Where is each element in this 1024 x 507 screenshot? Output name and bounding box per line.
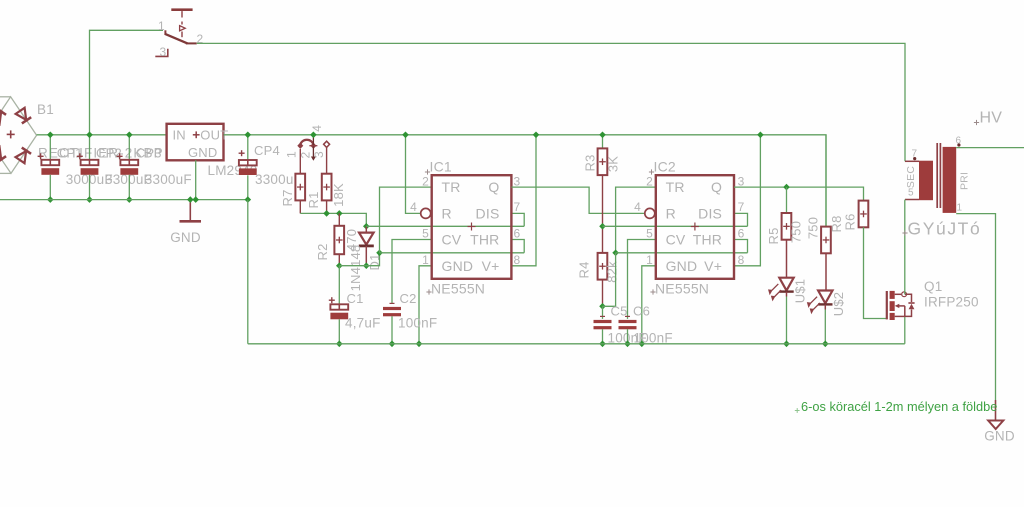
capacitor C1 — [330, 304, 348, 309]
svg-text:R3: R3 — [583, 154, 598, 171]
junction IC1 reset riser — [402, 132, 409, 139]
svg-text:DIS: DIS — [698, 206, 722, 222]
svg-text:TR: TR — [666, 179, 685, 195]
junction R2 top — [336, 210, 343, 217]
wire IC1 THR U-stub — [511, 240, 524, 253]
wire CP1 bottom lead — [49, 175, 51, 200]
wire R4 bottom lead — [602, 280, 604, 307]
wire R5 to LED US1 — [786, 240, 788, 278]
svg-text:5: 5 — [422, 227, 429, 241]
svg-text:3: 3 — [160, 45, 167, 59]
svg-text:PRI: PRI — [959, 172, 971, 190]
svg-text:CP2: CP2 — [96, 146, 122, 161]
svg-text:R5: R5 — [766, 227, 781, 244]
wire CP2 bottom lead — [89, 175, 91, 200]
wire regulator GND pin — [195, 160, 197, 199]
switch S1 — [171, 8, 192, 11]
svg-text:CP3: CP3 — [136, 146, 162, 161]
svg-text:1: 1 — [646, 253, 653, 267]
svg-text:C6: C6 — [633, 304, 650, 319]
junction CP4 top — [245, 132, 252, 139]
earth ground symbol GND (right) — [995, 400, 997, 421]
bridge rectifier B1 — [0, 97, 37, 174]
svg-text:750: 750 — [806, 217, 821, 239]
svg-text:R: R — [666, 206, 676, 222]
wire R7 bottom lead — [299, 200, 301, 213]
LED US2 — [818, 291, 832, 304]
wire R3 bottom lead — [602, 175, 604, 253]
wire IC1 CV to C2 — [392, 240, 432, 304]
wire R4-C5 to TR2 jog — [603, 253, 616, 306]
svg-text:750: 750 — [789, 221, 804, 243]
wire CP2 top lead — [89, 135, 91, 160]
wire CP4 bottom lead — [247, 175, 249, 199]
wire R1 top lead — [326, 147, 328, 173]
svg-text:18K: 18K — [331, 183, 346, 207]
svg-text:Q1: Q1 — [924, 279, 942, 294]
junction CP1 bottom — [47, 196, 54, 203]
wire R1 bottom lead — [326, 200, 328, 213]
wire R5 top lead — [786, 187, 788, 213]
resistor R7 — [295, 174, 305, 201]
junction node B (TR1/THR1) — [376, 250, 383, 257]
resistor R5 — [782, 213, 792, 240]
LED US1 — [779, 278, 793, 291]
capacitor CP3 — [120, 160, 138, 165]
svg-text:R2: R2 — [315, 243, 330, 260]
junction ground stub — [187, 196, 194, 203]
wire IC2 TR net — [616, 187, 656, 253]
wire IC2 V+ riser — [734, 135, 760, 266]
svg-text:IRFP250: IRFP250 — [924, 295, 979, 310]
junction R2 bottom — [336, 262, 343, 269]
junction R4 bottom / C5 top — [599, 303, 606, 310]
svg-text:NE555N: NE555N — [655, 281, 709, 297]
svg-text:HV: HV — [980, 110, 1003, 127]
svg-text:7: 7 — [912, 149, 918, 160]
voltage regulator U (LM2940) — [167, 124, 224, 161]
wire IC2 through DIS — [603, 225, 748, 227]
svg-text:GND: GND — [188, 145, 218, 160]
svg-text:GND: GND — [984, 429, 1015, 444]
junction IC1 GND on rail — [416, 341, 423, 348]
capacitor CP2 — [81, 160, 99, 165]
wire R7 top lead — [299, 149, 301, 174]
svg-text:CV: CV — [666, 232, 686, 248]
junction node A (D1 anode / DIS1) — [363, 223, 370, 230]
svg-text:CP1: CP1 — [57, 146, 83, 161]
op-amp U2 IC2 NE555N box — [656, 175, 734, 279]
wire GND bottom rail — [248, 343, 905, 345]
wire R2 top lead — [338, 213, 340, 225]
junction D1 cathode — [363, 262, 370, 269]
wire R6 to Q1 gate — [864, 227, 887, 318]
svg-text:4,7uF: 4,7uF — [345, 316, 381, 331]
wire node R7/R1/R2 — [300, 213, 366, 226]
wire SEC pin5 stub — [905, 199, 919, 201]
svg-text:1: 1 — [957, 203, 963, 214]
resistor R6 — [859, 201, 869, 228]
junction CP1 top — [47, 132, 54, 139]
resistor R4 — [598, 253, 608, 280]
junction IC2 GND on rail — [639, 341, 646, 348]
svg-text:6-os köracél 1-2m mélyen a föl: 6-os köracél 1-2m mélyen a földbe — [801, 399, 997, 414]
svg-text:THR: THR — [470, 232, 499, 248]
svg-text:C1: C1 — [347, 291, 364, 306]
capacitor C2 — [383, 307, 401, 310]
wire IC1 V+ riser — [511, 135, 536, 266]
junction R3 bottom (DIS2 node) — [599, 223, 606, 230]
wire Q1 drain to SEC — [904, 200, 906, 294]
svg-text:U$1: U$1 — [793, 279, 808, 303]
svg-text:GYúJTó: GYúJTó — [908, 219, 982, 239]
svg-text:R7: R7 — [280, 189, 295, 206]
wire SEC pin7 stub — [905, 160, 919, 162]
svg-text:7: 7 — [514, 200, 521, 214]
svg-text:C5: C5 — [611, 304, 628, 319]
resistor R8 — [821, 227, 831, 254]
svg-text:GND: GND — [666, 258, 698, 274]
svg-text:R: R — [442, 206, 452, 222]
junction R3 top on rail — [599, 132, 606, 139]
junction C6 bottom — [624, 341, 631, 348]
svg-text:NE555N: NE555N — [431, 281, 485, 297]
junction IC1 V+ riser — [533, 132, 540, 139]
svg-text:B1: B1 — [37, 102, 54, 117]
wire CP4 top lead — [247, 135, 249, 160]
wire IC2 Q output net — [734, 187, 864, 201]
wire C1 top lead — [338, 266, 340, 305]
svg-text:82k: 82k — [605, 261, 620, 283]
svg-text:CP4: CP4 — [254, 143, 280, 158]
svg-text:1: 1 — [158, 19, 165, 33]
svg-text:100nF: 100nF — [398, 316, 437, 331]
wire C5 top lead — [602, 306, 604, 319]
wire CP1 top lead — [49, 135, 51, 160]
svg-text:3: 3 — [514, 174, 521, 188]
svg-text:6: 6 — [514, 227, 521, 241]
svg-text:IC1: IC1 — [430, 159, 452, 175]
svg-text:R6: R6 — [843, 213, 858, 230]
wire net VIN top rail — [37, 134, 167, 136]
svg-text:Q: Q — [711, 179, 722, 195]
svg-text:1: 1 — [285, 151, 299, 158]
junction CP3 bottom — [126, 196, 133, 203]
diode D1 — [365, 226, 367, 232]
svg-text:4: 4 — [634, 200, 641, 214]
wire PRI pin6 to HV — [956, 147, 1024, 149]
trimmer switch S2 — [300, 140, 313, 145]
wire IC2 DIS U-stub — [734, 213, 748, 226]
junction CP4 bottom — [245, 196, 252, 203]
svg-text:SEC: SEC — [905, 166, 917, 188]
wire PRI pin1 to earth GND — [956, 214, 995, 400]
svg-text:TR: TR — [442, 179, 461, 195]
junction US1 on gnd rail — [783, 341, 790, 348]
svg-text:4: 4 — [410, 200, 417, 214]
wire IC1 through THR — [380, 252, 525, 254]
svg-text:2: 2 — [422, 174, 429, 188]
IC1 origin cross — [468, 226, 476, 228]
svg-text:3300uF: 3300uF — [145, 172, 192, 187]
op-amp U1 IC1 NE555N box — [432, 175, 512, 279]
wire C1 bottom lead — [338, 319, 340, 344]
svg-text:1N4148: 1N4148 — [348, 245, 363, 292]
ground symbol GND (left) — [189, 200, 191, 222]
wire IC1 through DIS — [366, 225, 524, 227]
wire to switch S1 pin 1 — [90, 30, 164, 135]
wire net V+ rail — [224, 135, 827, 227]
wire US2 cathode lead — [824, 304, 826, 309]
wire S1 pin2 to transformer — [197, 43, 905, 161]
svg-text:3: 3 — [738, 174, 745, 188]
junction CP3 top — [126, 132, 133, 139]
wire R8 feed from V+ rail — [825, 135, 827, 227]
junction C5 bottom — [599, 341, 606, 348]
wire IC1 Q to IC2 reset — [511, 187, 644, 213]
regulator origin cross — [193, 134, 200, 136]
svg-text:CV: CV — [442, 232, 462, 248]
svg-text:C2: C2 — [400, 291, 417, 306]
capacitor C6 — [619, 320, 637, 323]
junction R5 top on Q net — [783, 184, 790, 191]
svg-text:Q: Q — [488, 179, 499, 195]
wire US1 cathode lead — [786, 292, 788, 297]
junction IC2 TR node — [612, 250, 619, 257]
junction US2 on gnd rail — [822, 341, 829, 348]
transformer T1 GYuJTo — [919, 161, 933, 201]
svg-text:3K: 3K — [606, 156, 621, 172]
transistor Q1 MOSFET — [886, 291, 888, 319]
junction IC2 V+ riser — [757, 132, 764, 139]
junction CP2 bottom — [86, 196, 93, 203]
wire GND rail to Q1 source — [904, 316, 906, 343]
wire IC1 GND net — [419, 266, 432, 344]
svg-text:IN: IN — [173, 128, 186, 143]
wire R8 to LED US2 — [825, 253, 827, 290]
capacitor CP1 — [41, 160, 59, 165]
junction R1 bottom — [323, 210, 330, 217]
svg-text:V+: V+ — [482, 258, 500, 274]
wire GND drop to bottom rail — [247, 200, 249, 344]
wire R3 top lead — [602, 135, 604, 149]
junction regulator GND — [192, 196, 199, 203]
wire node B jog — [339, 253, 379, 266]
svg-text:8: 8 — [514, 253, 521, 267]
wire C5 bottom lead — [602, 329, 604, 344]
svg-text:IC2: IC2 — [654, 159, 676, 175]
svg-text:1: 1 — [422, 253, 429, 267]
junction CP2 top — [86, 132, 93, 139]
svg-text:6: 6 — [738, 227, 745, 241]
wire IC2 THR U-stub — [734, 240, 748, 253]
wire C2 bottom lead — [391, 316, 393, 344]
wire IC2 GND net — [642, 266, 656, 344]
wire IC2 CV to C6 — [628, 240, 656, 319]
svg-text:GND: GND — [170, 230, 201, 245]
junction C2 bottom — [389, 341, 396, 348]
junction S2 pin2 on rail — [310, 132, 317, 139]
wire IC1 reset riser — [406, 135, 421, 214]
svg-text:DIS: DIS — [476, 206, 500, 222]
wire CP3 top lead — [128, 135, 130, 160]
capacitor CP4 — [239, 160, 257, 165]
svg-text:R4: R4 — [577, 261, 592, 278]
wire IC1 DIS U-stub — [511, 213, 524, 226]
capacitor C5 — [594, 320, 612, 323]
wire IC1 TR net — [380, 187, 432, 253]
svg-text:2: 2 — [646, 174, 653, 188]
wire IC2 through THR — [616, 252, 748, 254]
resistor R3 — [598, 148, 608, 175]
svg-text:4: 4 — [310, 125, 324, 132]
svg-text:7: 7 — [738, 200, 745, 214]
wire C6 bottom lead — [627, 329, 629, 344]
wire CP3 bottom lead — [128, 175, 130, 200]
svg-text:3: 3 — [312, 151, 326, 158]
svg-text:5: 5 — [908, 188, 914, 199]
resistor R2 — [334, 226, 344, 254]
svg-text:GND: GND — [442, 258, 474, 274]
svg-text:5: 5 — [646, 227, 653, 241]
svg-text:THR: THR — [693, 232, 722, 248]
svg-text:U$2: U$2 — [831, 292, 846, 316]
svg-text:V+: V+ — [704, 258, 722, 274]
IC2 origin cross — [691, 226, 699, 228]
resistor R1 — [322, 174, 332, 201]
svg-text:6: 6 — [956, 136, 962, 147]
svg-text:R1: R1 — [306, 191, 321, 208]
wire R2 bottom lead — [338, 254, 340, 266]
svg-text:8: 8 — [738, 253, 745, 267]
wire GND rail left — [0, 199, 248, 201]
junction C1 bottom — [336, 341, 343, 348]
